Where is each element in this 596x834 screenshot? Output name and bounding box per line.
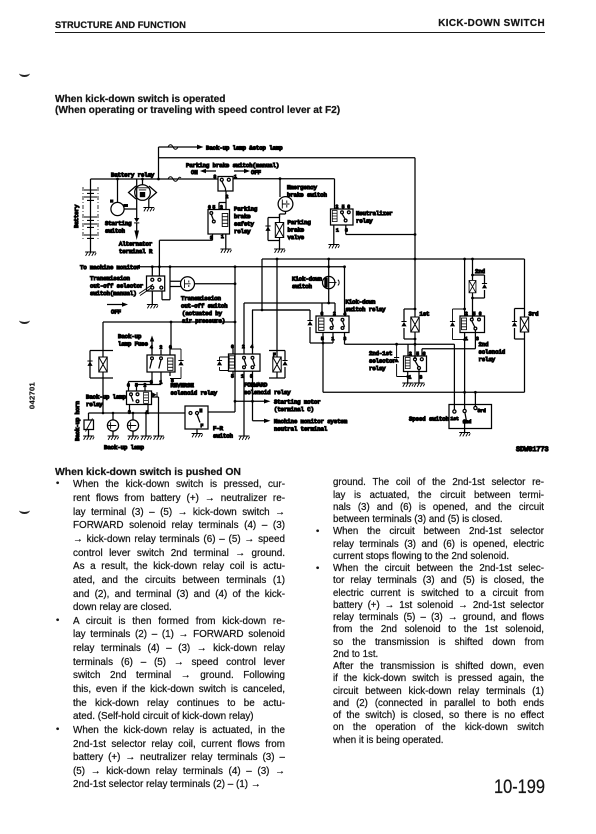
wire kick-down relay feed bars — [244, 303, 335, 316]
svg-text:5: 5 — [342, 204, 345, 210]
node speed 3rd riser — [474, 391, 477, 394]
fuse on main bus — [168, 177, 181, 182]
margin marks — [19, 68, 30, 77]
pin 2nd speed switch — [463, 419, 472, 425]
label machine monitor system neutral terminal — [274, 418, 348, 433]
node 1st solenoid bottom — [414, 338, 417, 341]
svg-text:2: 2 — [160, 345, 163, 351]
arrow OFF — [234, 169, 261, 176]
node FR riser starting tap — [234, 400, 237, 403]
ground horn — [83, 436, 94, 440]
ground neutralizer relay — [328, 245, 339, 249]
diode R solenoid — [87, 361, 92, 366]
node selector switch tap B — [158, 265, 161, 268]
label reverse solenoid relay — [171, 382, 218, 397]
ground battery — [85, 252, 96, 256]
svg-text:relay: relay — [356, 218, 373, 225]
parking brake switch — [218, 177, 233, 192]
node selector switch tap A — [151, 265, 154, 268]
node selector pin1 — [406, 375, 409, 378]
node 2nd relay tap — [463, 258, 466, 261]
ground lamp2 — [128, 436, 139, 440]
pins 6 2 4 kick-down relay — [321, 311, 347, 317]
svg-text:switch(manual): switch(manual) — [90, 290, 137, 297]
node selector pin5 cross — [414, 343, 417, 346]
wire reverse feed riser — [170, 322, 172, 349]
svg-text:5: 5 — [135, 383, 138, 389]
wire kick-down coil feed — [252, 310, 333, 343]
svg-text:brake switch: brake switch — [287, 192, 327, 199]
node 2nd relay diode top — [463, 308, 466, 311]
pins 2 5 6 selector relay — [409, 351, 426, 357]
label speed switch — [409, 416, 449, 423]
svg-text:safety: safety — [234, 221, 255, 228]
svg-text:Parking brake switch(manual): Parking brake switch(manual) — [186, 162, 279, 169]
svg-text:switch: switch — [105, 228, 125, 235]
kick-down switch relay — [316, 316, 349, 333]
transmission cut-off switch — [170, 277, 235, 291]
node riser 234 — [414, 233, 417, 236]
node 2nd solenoid tap — [471, 258, 474, 261]
F solenoid — [269, 259, 285, 378]
pins 5 1 3 forward relay — [231, 374, 253, 380]
arrow starting motor — [235, 399, 271, 403]
svg-text:solenoid relay: solenoid relay — [244, 389, 291, 396]
kick-down switch — [323, 259, 340, 303]
left column text — [0, 0, 596, 1]
pins 6 5 2 backup relay — [127, 383, 147, 389]
pin 3rd speed switch — [478, 408, 487, 414]
label parking brake valve — [288, 219, 311, 241]
svg-text:neutral terminal: neutral terminal — [274, 426, 328, 433]
wire backup relay pin1 ground — [145, 413, 147, 436]
svg-text:1: 1 — [409, 375, 412, 381]
ground selector switch — [147, 305, 158, 309]
intro — [55, 94, 340, 118]
parking brake valve — [268, 214, 284, 249]
svg-text:5: 5 — [473, 311, 476, 317]
svg-text:Back-up: Back-up — [118, 333, 141, 340]
node R solenoid bottom — [102, 412, 105, 415]
label back-up horn — [74, 401, 81, 441]
ground speed switch — [459, 433, 470, 437]
svg-text:lamp Fuse: lamp Fuse — [118, 341, 148, 348]
label starting switch — [105, 220, 132, 235]
wire F-R to riser — [208, 411, 235, 413]
wire safety relay pin3 to selector switch — [159, 234, 212, 276]
pins 4 2 6 reverse relay — [150, 345, 172, 351]
diode reverse relay — [170, 349, 184, 379]
pin 2 parking brake switch — [226, 194, 229, 200]
pin 1st speed switch — [451, 416, 460, 422]
svg-text:Neutralizer: Neutralizer — [356, 210, 393, 217]
label neutralizer relay — [356, 210, 393, 225]
node kick-down switch cross — [327, 265, 330, 268]
page number — [444, 776, 545, 799]
svg-text:2nd: 2nd — [475, 268, 485, 275]
svg-text:6: 6 — [347, 204, 350, 210]
label 2nd solenoid relay — [479, 341, 506, 363]
wire speed 2nd drop — [464, 392, 466, 409]
svg-text:3: 3 — [420, 375, 423, 381]
wire speed 1st drop — [453, 344, 455, 410]
svg-text:To machine monitor: To machine monitor — [80, 264, 140, 271]
svg-text:solenoid relay: solenoid relay — [171, 390, 218, 397]
svg-text:Machine monitor system: Machine monitor system — [274, 418, 348, 425]
node coil feed — [261, 309, 264, 312]
svg-text:3: 3 — [214, 174, 217, 180]
wire forward pin3 to starting motor — [252, 378, 254, 401]
label emergency brake switch — [287, 184, 327, 199]
bus kick-down top — [262, 259, 525, 310]
REVERSE solenoid relay — [147, 349, 175, 379]
parking brake safety relay — [208, 210, 230, 235]
pin N F-R switch — [200, 408, 203, 414]
F-R switch — [185, 406, 208, 434]
svg-text:Transmission: Transmission — [181, 295, 221, 302]
svg-text:2: 2 — [465, 311, 468, 317]
svg-text:2: 2 — [242, 344, 245, 350]
svg-text:Parking: Parking — [288, 219, 311, 226]
svg-text:FORWARD: FORWARD — [244, 382, 268, 389]
wire selector pin3 ground — [418, 370, 420, 384]
speed switch — [449, 405, 492, 433]
svg-text:terminal R: terminal R — [119, 248, 153, 255]
svg-text:Back-up lamp: Back-up lamp — [86, 394, 126, 401]
svg-text:1: 1 — [221, 234, 224, 240]
wire selector feed A — [151, 267, 153, 276]
back-up lamp fuse — [150, 336, 154, 350]
label parking brake switch manual — [186, 162, 279, 169]
pin 3 parking brake switch — [214, 174, 217, 180]
svg-text:2: 2 — [409, 351, 412, 357]
back-up horn — [84, 413, 94, 436]
emergency brake switch — [278, 179, 293, 218]
label kick-down switch — [292, 276, 322, 291]
svg-text:F: F — [201, 423, 204, 429]
node speed 2nd riser — [463, 391, 466, 394]
svg-text:Kick-down: Kick-down — [292, 276, 322, 283]
label 2nd solenoid — [475, 268, 485, 275]
ground forward relay — [239, 436, 250, 440]
svg-text:5: 5 — [321, 336, 324, 342]
node starting switch tap — [116, 178, 119, 181]
svg-text:OFF: OFF — [111, 309, 121, 316]
wire kick-down to speed riser — [322, 343, 324, 392]
svg-text:2nd: 2nd — [479, 341, 489, 348]
label back-up lamp fuse — [118, 333, 148, 348]
node starting motor junction — [251, 400, 254, 403]
svg-text:Parking: Parking — [234, 206, 257, 213]
wire switch pin2 to safety relay — [219, 191, 226, 210]
svg-text:Back-up lamp &stop lamp: Back-up lamp &stop lamp — [206, 145, 283, 152]
ground selector pin1 — [402, 383, 413, 387]
label parking brake safety relay — [234, 206, 257, 236]
diode selector relay — [394, 344, 408, 376]
wire 2nd relay pin3 to selector pin6 — [422, 330, 475, 356]
node selector loop tap — [169, 265, 172, 268]
1st solenoid — [404, 259, 419, 359]
pins 2 5 6 neutralizer — [336, 204, 351, 210]
rotated code 042701 — [28, 366, 37, 426]
arrow ON — [191, 169, 216, 176]
node 1st solenoid top — [414, 308, 417, 311]
back-up lamp relay — [127, 387, 152, 413]
svg-text:Battery: Battery — [73, 204, 80, 228]
wire parking bus — [159, 157, 416, 159]
svg-text:6: 6 — [169, 345, 172, 351]
label 3rd solenoid — [529, 311, 539, 318]
node FR riser top — [234, 265, 237, 268]
svg-text:Kick-down: Kick-down — [346, 299, 376, 306]
svg-text:solenoid: solenoid — [479, 349, 506, 356]
pin 1 parking brake switch — [234, 174, 237, 180]
right column text — [0, 0, 596, 1]
diode forward relay — [217, 357, 229, 371]
pins 6 2 4 forward relay — [231, 344, 254, 350]
node kick-down switch bottom — [327, 302, 330, 305]
wire kick-down pin3 to selector — [345, 333, 455, 345]
label alternator terminal R — [119, 241, 153, 256]
ground parking brake valve — [274, 249, 285, 253]
svg-text:1st: 1st — [420, 311, 430, 318]
header right — [345, 18, 545, 29]
wire riser — [158, 147, 160, 179]
neutralizer relay — [331, 209, 354, 225]
svg-text:1st: 1st — [451, 416, 460, 422]
svg-text:ON: ON — [191, 169, 198, 176]
wire lamp bus bottom — [89, 412, 186, 414]
2nd-1st selector relay — [404, 356, 427, 372]
svg-text:valve: valve — [288, 234, 305, 241]
svg-text:2nd-1st: 2nd-1st — [369, 350, 392, 357]
label 1st solenoid — [420, 311, 430, 318]
svg-text:2: 2 — [144, 383, 147, 389]
svg-text:4: 4 — [150, 345, 153, 351]
header left — [55, 20, 186, 30]
pins 1 3 selector relay — [409, 375, 423, 381]
ground backup diode line — [153, 436, 164, 440]
svg-text:SDW01773: SDW01773 — [516, 446, 549, 454]
diode kick-down relay — [307, 320, 312, 325]
svg-text:relay: relay — [234, 228, 251, 235]
label back-up lamp relay — [86, 394, 126, 409]
wire safety relay pin1 ground — [225, 234, 227, 249]
back-up lamp 1 — [107, 413, 118, 436]
svg-text:Battery relay: Battery relay — [111, 172, 155, 179]
node emergency tap — [279, 177, 282, 180]
wire selector pin1 ground — [407, 372, 409, 384]
svg-text:Emergency: Emergency — [287, 184, 318, 191]
wire speed switch bus — [323, 391, 525, 393]
svg-text:2: 2 — [333, 311, 336, 317]
label forward solenoid relay — [244, 382, 291, 397]
svg-text:brake: brake — [288, 227, 305, 234]
wire battery relay ground stem — [148, 199, 150, 208]
wire to machine monitor — [134, 265, 345, 269]
svg-text:6: 6 — [127, 383, 130, 389]
wire 2nd relay pin1 down — [464, 333, 466, 393]
svg-text:6: 6 — [321, 311, 324, 317]
wire to machine monitor neutral — [253, 401, 271, 423]
label F-R switch — [213, 425, 233, 440]
svg-text:switch relay: switch relay — [346, 306, 387, 313]
3rd solenoid — [515, 259, 529, 392]
wire 2nd relay feed — [464, 259, 466, 316]
label 2nd-1st selector relay — [369, 350, 396, 372]
wire selector switch ground stem — [151, 291, 153, 305]
wire reverse to backup relay links — [129, 379, 162, 392]
svg-text:N: N — [200, 408, 203, 414]
node kick-down switch tap — [327, 258, 330, 261]
node reverse cross 322 — [170, 321, 173, 324]
svg-text:2: 2 — [220, 205, 223, 211]
node F solenoid tap — [276, 258, 279, 261]
label kick-down switch relay — [346, 299, 387, 314]
wire lamp bus — [159, 146, 185, 148]
diode backup relay — [152, 392, 159, 436]
svg-text:(actuated by: (actuated by — [182, 310, 223, 317]
node lamp2 tap — [132, 412, 135, 415]
pins 1 3 neutralizer — [336, 228, 348, 234]
ground backup relay pin1 — [141, 436, 152, 440]
wire alternator drop — [136, 179, 138, 231]
2nd solenoid — [469, 259, 484, 319]
svg-text:1: 1 — [336, 228, 339, 234]
svg-text:Alternator: Alternator — [119, 241, 152, 248]
fuse on lamp bus — [168, 145, 178, 150]
wire main right riser — [414, 158, 416, 259]
wire forward pin1 ground — [243, 378, 245, 436]
svg-text:relay: relay — [369, 365, 386, 372]
wire speed 3rd drop — [474, 392, 476, 406]
arrow to back-up lamp — [184, 145, 204, 150]
svg-text:6: 6 — [208, 205, 211, 211]
svg-text:3rd: 3rd — [478, 408, 487, 414]
svg-text:air pressure): air pressure) — [182, 318, 225, 325]
svg-text:5: 5 — [231, 374, 234, 380]
svg-text:Starting: Starting — [105, 220, 132, 227]
svg-text:2: 2 — [336, 204, 339, 210]
label transmission cut-off switch — [181, 295, 228, 325]
node 1st riser cross — [414, 258, 417, 261]
wire R solenoid link — [103, 322, 235, 350]
svg-text:switch: switch — [213, 433, 233, 440]
diode 2nd solenoid — [482, 283, 487, 288]
pins 3 1 backup relay — [128, 410, 149, 416]
svg-text:Starting motor: Starting motor — [274, 399, 321, 406]
wire battery top bus — [91, 178, 219, 180]
arrow OFF selector — [107, 302, 128, 315]
svg-text:6: 6 — [479, 311, 482, 317]
diode parking brake valve — [265, 226, 270, 231]
ground lamp1 — [108, 436, 119, 440]
node selector diode tap — [395, 343, 398, 346]
svg-text:1: 1 — [332, 336, 335, 342]
battery label — [73, 204, 80, 228]
pins 3 1 5 reverse relay — [150, 378, 174, 386]
ground safety relay — [220, 249, 231, 253]
wire kick-down pin4 up — [344, 267, 346, 316]
svg-text:selector: selector — [369, 358, 396, 365]
svg-text:6: 6 — [231, 344, 234, 350]
pin F F-R switch — [201, 423, 204, 429]
svg-text:F: F — [273, 352, 276, 358]
arrow alternator terminal R — [134, 231, 139, 241]
wire FR riser — [234, 267, 236, 412]
node backup pin1 cross — [145, 412, 148, 415]
svg-text:3rd: 3rd — [529, 311, 539, 318]
pins 6 5 2 safety relay — [208, 205, 223, 211]
pins 3 1 safety relay — [210, 234, 224, 241]
node battery relay tap — [141, 178, 144, 181]
node cut-off to FR riser — [234, 282, 237, 285]
node kick-down ground riser — [322, 342, 325, 345]
pin F solenoid — [273, 352, 276, 358]
svg-text:Speed switch: Speed switch — [409, 416, 449, 423]
wire neutralizer pin1 ground — [333, 225, 335, 245]
svg-text:(terminal C): (terminal C) — [274, 406, 314, 413]
node lamp1 tap — [112, 412, 115, 415]
svg-text:relay: relay — [479, 356, 496, 363]
node FR riser lamp link — [234, 321, 237, 324]
ground selector pin3 — [414, 383, 425, 387]
wire bus to neutralizer — [233, 179, 335, 209]
diode F solenoid — [282, 360, 287, 365]
svg-text:relay: relay — [86, 401, 103, 408]
label back-up lamp — [104, 444, 144, 451]
label battery relay — [111, 172, 155, 179]
ground F-R switch — [192, 434, 203, 438]
ground battery relay — [143, 208, 154, 212]
node riser junction — [157, 178, 160, 181]
label to machine monitor — [80, 264, 140, 271]
wire selector coil feed — [407, 344, 409, 356]
starting switch — [110, 179, 137, 216]
svg-text:cut-off selector: cut-off selector — [90, 283, 143, 290]
svg-text:6: 6 — [423, 351, 426, 357]
svg-text:OFF: OFF — [251, 169, 261, 176]
R solenoid — [90, 351, 113, 414]
battery relay — [129, 179, 157, 200]
svg-text:brake: brake — [234, 213, 251, 220]
pins 2 5 6 2nd relay — [465, 311, 482, 317]
svg-text:F-R: F-R — [213, 425, 224, 432]
label SDW01773 — [516, 446, 549, 454]
node 2nd relay pin1 diode — [463, 338, 466, 341]
pins 1 3 2nd relay — [465, 336, 479, 342]
header rule — [55, 32, 545, 34]
diode alternator — [134, 218, 139, 223]
2nd solenoid relay — [460, 316, 485, 333]
label back-up lamp & stop lamp — [206, 145, 283, 152]
label starting motor terminal C — [274, 399, 321, 414]
wire neutralizer pin3 to main riser — [346, 225, 415, 235]
svg-text:5: 5 — [416, 351, 419, 357]
svg-text:cut-off switch: cut-off switch — [181, 303, 228, 310]
svg-text:Back-up horn: Back-up horn — [74, 401, 81, 441]
wire selector loop — [162, 267, 170, 300]
svg-text:4: 4 — [251, 344, 254, 350]
diode 3rd solenoid — [512, 321, 517, 326]
svg-text:Transmission: Transmission — [90, 275, 130, 282]
svg-text:switch: switch — [292, 283, 312, 290]
svg-text:5: 5 — [213, 205, 216, 211]
svg-text:REVERSE: REVERSE — [171, 382, 195, 389]
transmission cut-off selector switch — [139, 276, 165, 296]
FORWARD solenoid relay — [229, 303, 261, 378]
back-up lamp 2 — [127, 413, 138, 436]
